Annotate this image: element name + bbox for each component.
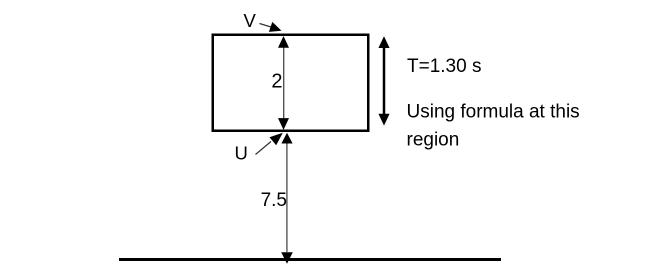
svg-text:2: 2 xyxy=(271,71,282,93)
rectangle box xyxy=(213,35,369,131)
V pointer arrow wire xyxy=(260,24,272,28)
svg-text:7.5: 7.5 xyxy=(261,190,287,211)
right duration arrow top head xyxy=(378,36,389,48)
height line 7.5 shaft xyxy=(286,142,288,252)
U pointer arrow head xyxy=(270,133,283,145)
svg-text:Using formula at this: Using formula at this xyxy=(407,102,580,123)
height line top head xyxy=(281,133,292,144)
inner distance arrow shaft xyxy=(283,47,285,120)
ground line xyxy=(119,258,501,261)
svg-text:U: U xyxy=(235,143,248,164)
inner distance arrow top head xyxy=(278,36,289,48)
svg-text:T=1.30 s: T=1.30 s xyxy=(407,56,481,77)
U pointer arrow wire xyxy=(256,142,272,155)
right duration arrow bottom head xyxy=(378,114,389,126)
inner distance arrow bottom head xyxy=(278,118,289,130)
V pointer arrow head xyxy=(269,22,282,32)
height line bottom head xyxy=(281,252,293,264)
svg-text:V: V xyxy=(244,10,257,31)
right duration arrow shaft xyxy=(383,47,386,116)
svg-text:region: region xyxy=(407,130,460,151)
